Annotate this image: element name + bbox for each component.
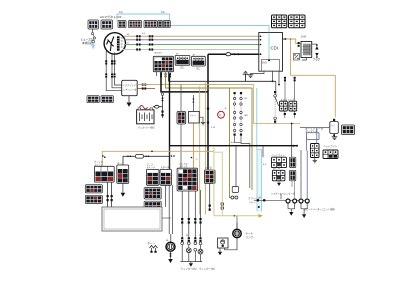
switch: engine stop: [274, 91, 279, 123]
ground: rectifier: [127, 103, 132, 107]
connector: choke 6P: [342, 125, 355, 135]
switch: winker switch box: [95, 166, 115, 182]
connector: row box 4: [158, 21, 163, 28]
junction: CDI bottom dots: [272, 80, 280, 85]
connector: center 6P upper: [272, 157, 287, 167]
wire: sky jumper over connector row: [117, 14, 170, 21]
wire: feed up from battery node: [162, 95, 164, 106]
lamp: winker bulb A: [186, 242, 191, 262]
svg-text:本体接続: 本体接続: [82, 41, 93, 45]
lamp: meter bulb 2: [293, 199, 297, 209]
connector: kill 4P A: [280, 101, 288, 111]
wire: sky lead to CDI: [170, 26, 269, 34]
connector: meter 6P: [205, 170, 216, 184]
wire: gray bus to CDI: [122, 49, 259, 51]
connector: left mid 6P: [101, 96, 113, 103]
terminal: battery eyelet: [155, 105, 159, 108]
svg-text:ハンドル: ハンドル: [179, 162, 189, 165]
svg-text:リレー: リレー: [190, 114, 197, 117]
svg-text:ON: ON: [244, 98, 248, 100]
wire: headlight conn ground: [314, 158, 316, 161]
connector: meter 4P lower: [290, 170, 296, 181]
wire: trunk thin to dimmer: [169, 146, 171, 170]
wire: rectifier output 2: [137, 88, 155, 90]
ground: center cluster: [277, 168, 281, 186]
wire: winker drops: [108, 182, 112, 213]
wire: magneto lead 1: [105, 51, 107, 74]
connector: row box 1: [118, 21, 126, 28]
wire: magneto lead 3: [114, 53, 116, 74]
junction: lead connector pairs: [105, 74, 115, 78]
svg-text:リレー: リレー: [249, 201, 257, 204]
connector: top right 9P A: [272, 15, 287, 28]
connector: handle switch 20P: [177, 168, 198, 191]
connector: AC magneto 6P right: [101, 20, 113, 29]
wire: blue dimmer loop: [307, 128, 317, 151]
svg-text:プラグ: プラグ: [313, 58, 321, 62]
wire: tail bulb feed: [236, 216, 238, 230]
ground: bus ground: [243, 71, 249, 81]
wire: bus black upper: [169, 80, 276, 82]
auto choke unit: [330, 119, 339, 136]
connector: coil sub: [294, 54, 300, 61]
svg-text:OFF: OFF: [244, 115, 249, 117]
label: tail lamp: [246, 231, 254, 239]
wire: brown distribution bus: [102, 151, 214, 166]
label: DC marks: [181, 68, 201, 71]
junction: bus connectors column 2: [149, 35, 153, 50]
ground: winker: [189, 262, 193, 267]
wire: blue bus to CDI: [125, 39, 259, 41]
tail lamp bulb: [233, 223, 241, 238]
connector: headlight 8P: [311, 144, 320, 158]
wire: rectifier output 1: [137, 84, 150, 86]
svg-text:DC: DC: [197, 69, 201, 71]
wire: brown feed to choke: [291, 39, 336, 118]
ground: license: [218, 252, 222, 256]
wire: bus stub: [168, 72, 170, 82]
spark plug: arrows: [315, 44, 318, 58]
connector: meter 4P upper: [290, 157, 296, 167]
wire: license ground: [219, 248, 221, 252]
lamp: meter bulb 4: [305, 199, 309, 209]
connector: row box 5: [163, 21, 170, 28]
rectifier/regulator box: [122, 80, 139, 95]
wire: indicator feed stub: [280, 194, 282, 200]
junction: band end dots: [257, 199, 266, 202]
wire: bus brown upper: [137, 84, 253, 86]
label: bus wire marks: [127, 33, 276, 242]
wire: green bus to CDI: [124, 44, 259, 46]
ground: headlight: [168, 259, 173, 263]
svg-text:W: W: [186, 235, 188, 237]
wire: meter lamp bus: [254, 199, 309, 201]
wire: dimmer drops: [166, 185, 173, 242]
switch: dimmer box B: [160, 169, 171, 185]
svg-text:ホーン: ホーン: [148, 241, 156, 245]
lamp: position pair: [221, 203, 224, 210]
connector: headlight 6P: [323, 150, 338, 159]
lamp: winker right front: [181, 242, 184, 262]
junction: trunk marks: [207, 108, 209, 124]
svg-text:ディマーチ: ディマーチ: [306, 129, 318, 133]
connector: row box 2: [129, 21, 142, 28]
lamp: flasher contacts: [231, 196, 238, 199]
svg-text:バッテリー 6N2: バッテリー 6N2: [138, 126, 156, 130]
node: key mark (red circle): [218, 111, 225, 118]
wire: brown bus to CDI: [124, 35, 259, 37]
junction: brown branch: [290, 38, 292, 40]
wire: sky drop: [256, 88, 258, 150]
ground: choke: [332, 134, 338, 140]
switch: main switch column 1: [233, 92, 235, 136]
lamp: meter bulb 1: [286, 199, 290, 209]
junction: battery feed dots: [161, 97, 163, 116]
svg-text:W: W: [127, 34, 129, 36]
headlight bulb: [166, 242, 175, 251]
svg-text:ACマグネトCDI: ACマグネトCDI: [100, 14, 122, 19]
wire: yellow frame bottom: [214, 214, 263, 218]
connector: left lower 8P A: [85, 185, 102, 193]
connector: top right 9P B: [289, 15, 306, 28]
wire: winker common: [181, 261, 203, 263]
connector: lamp grid lower: [144, 201, 161, 212]
wire: link down to meter grids: [291, 124, 293, 158]
frame: body outline box: [102, 207, 162, 231]
wire: brown drop right pair: [205, 81, 207, 214]
junction: winker feed pairs: [181, 218, 201, 224]
relay: starter unit: [189, 111, 200, 123]
junction: meter drop marks: [209, 205, 211, 211]
junction: headlight dots: [170, 253, 172, 257]
wire: dark meter feed: [300, 150, 302, 199]
flasher relay box: [232, 187, 238, 193]
wire: tail to license: [225, 238, 237, 250]
wire: magneto lead 2: [111, 53, 113, 74]
junction: CDI input pins: [260, 36, 262, 56]
svg-text:テール: テール: [246, 231, 254, 235]
junction: rectifier output pairs: [142, 84, 146, 90]
switch: main switch column 2: [240, 92, 242, 136]
wire: blue meter feed: [306, 151, 308, 200]
connector: harness 8P B: [192, 56, 206, 66]
wire: brown drop left pair: [199, 86, 201, 214]
wire: brown feed to ignition coil: [286, 39, 302, 44]
lamp: winker bulb C: [198, 242, 203, 262]
wire: relay ground: [199, 117, 203, 122]
ground: meter pair 2: [301, 209, 307, 218]
connector: row box 3: [144, 21, 157, 28]
junction: bus connectors column 1: [136, 35, 140, 50]
wire: fuse line: [123, 156, 170, 165]
wire: switch column stubs down: [235, 136, 250, 188]
fuse: accessory: [127, 155, 149, 159]
svg-text:b.b: b.b: [119, 10, 123, 14]
horn symbol: [150, 246, 158, 253]
wire: coil HT lead: [312, 43, 317, 45]
wire: winker column feeds: [182, 190, 200, 238]
switch: horn switch box: [117, 165, 129, 183]
wire: CDI output to coil node: [283, 38, 286, 40]
svg-text:1HX: 1HX: [301, 35, 306, 39]
svg-text:ランプ: ランプ: [246, 235, 254, 239]
wire: relay drop to handle switch: [193, 123, 195, 168]
ignition coil: [298, 42, 312, 61]
svg-text:DC: DC: [181, 68, 185, 70]
junction: sky end: [258, 206, 260, 208]
wire: kill connector feeds: [285, 78, 295, 119]
connector: main harness 20P: [153, 56, 173, 71]
wire: headlight down: [170, 251, 172, 259]
svg-text:ウィンカー(左): ウィンカー(左): [199, 267, 215, 271]
lamp: winker small B: [194, 242, 197, 262]
wire: meter grid leads: [292, 180, 295, 200]
wire: bus brown lower: [166, 72, 253, 88]
lamp: meter bulb 3: [299, 199, 303, 209]
wire: engine stop feed: [275, 81, 277, 94]
svg-text:K: K: [219, 113, 221, 117]
junction: CDI internal node: [268, 59, 270, 61]
svg-text:W: W: [199, 235, 201, 237]
label: flasher relay: [248, 196, 261, 204]
ground: CDI: [248, 75, 254, 78]
connector: choke sub box: [307, 133, 319, 140]
junction: distribution dots: [102, 151, 192, 159]
fuse: main (red): [140, 106, 148, 109]
wire: olive drop A: [230, 88, 231, 198]
junction: link node: [291, 123, 293, 125]
wire: CDI ground lead: [251, 71, 265, 74]
wire: yellow stub: [214, 152, 222, 216]
junction: relay feed dots: [193, 98, 195, 103]
ground: headlight conn: [313, 160, 317, 163]
connector: center 6P lower: [272, 170, 285, 181]
CDI unit box: [259, 33, 283, 72]
ground: relay: [201, 122, 205, 125]
connector: lamp grid upper: [144, 188, 161, 199]
connector: kill 4P B: [289, 101, 297, 111]
wire: frame link right: [162, 217, 171, 219]
svg-text:D+D: D+D: [262, 62, 267, 65]
wire: leads into rectifier: [106, 78, 122, 91]
battery: [137, 108, 154, 124]
wire: rectifier ground: [128, 96, 130, 103]
wire: sky inside CDI: [268, 33, 270, 60]
wire: black trunk vertical: [207, 54, 209, 169]
svg-text:b.b: b.b: [161, 10, 165, 14]
wire: olive drop B: [251, 88, 253, 190]
wire: yellow frame vertical: [213, 148, 215, 216]
wire: flasher drop: [235, 146, 237, 187]
junction: coil feed node: [285, 38, 287, 40]
connector: left mid 4P: [87, 96, 99, 103]
wire: meter connector drop: [209, 184, 211, 212]
junction: winker drop marks: [107, 195, 113, 201]
wire: trunk black left: [169, 74, 171, 169]
wire: choke link: [300, 127, 330, 129]
wire: relay feed drop: [192, 95, 194, 111]
wire: CDI bottom pins: [273, 71, 280, 84]
wire: trunk corner to flasher bus: [170, 145, 298, 147]
terminal: eyelet on feeder: [226, 53, 240, 56]
svg-text:AC/CDI: AC/CDI: [155, 52, 162, 55]
ground: horn switch: [121, 193, 126, 197]
connector: mid 6P red: [177, 111, 186, 124]
fuse F1 5A: [91, 33, 95, 43]
svg-text:ウィンカー(右): ウィンカー(右): [181, 267, 197, 271]
wire: fuse lead: [92, 29, 94, 33]
wire: harness stubs down: [157, 72, 171, 76]
wire: black feeder to CDI: [208, 53, 259, 55]
wire: mid connector feed: [180, 85, 182, 169]
wire: sky band to tail unit: [257, 150, 262, 212]
ground: meter pair 1: [288, 209, 295, 216]
svg-text:CDI: CDI: [271, 46, 278, 51]
wire: horn switch ground: [122, 183, 124, 192]
switch: dimmer box A: [146, 169, 159, 185]
magneto: AC generator circle: [104, 33, 125, 54]
junction: winker column pairs: [181, 237, 201, 242]
wire: battery positive lead: [153, 107, 163, 118]
connector: harness 8P A: [175, 55, 190, 65]
wire: to body (sky arrow): [91, 43, 96, 50]
label: lead marks: [105, 60, 115, 64]
connector: AC magneto 6P left: [88, 20, 99, 29]
connector: left lower 8P B: [85, 195, 102, 203]
license lamp unit: [218, 238, 229, 248]
wire: switch lower link: [254, 85, 300, 124]
wire: bus black heavy: [161, 72, 208, 92]
